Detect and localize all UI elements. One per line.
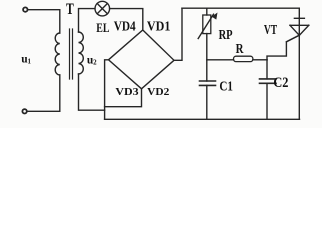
potentiometer RP stem top bbox=[206, 8, 208, 15]
transformer T primary winding bbox=[55, 33, 60, 75]
capacitor C1 stem + plates bbox=[200, 81, 216, 85]
wire bridge left vertex down to bus bbox=[105, 60, 109, 120]
wire top-left to transformer bbox=[28, 10, 60, 33]
bridge rectifier diamond VD1-VD4 bbox=[109, 30, 175, 89]
thyristor VT vertical through symbol bbox=[298, 18, 300, 119]
wire secondary top to lamp bbox=[79, 9, 95, 32]
potentiometer RP arrow bbox=[198, 14, 213, 38]
svg-text:u1: u1 bbox=[21, 54, 31, 66]
wire bottom-left to transformer bbox=[27, 75, 60, 111]
svg-text:VD3: VD3 bbox=[115, 86, 139, 98]
wire R to gate node bbox=[253, 59, 267, 61]
svg-text:u2: u2 bbox=[87, 55, 97, 67]
potentiometer RP arrowhead bbox=[212, 13, 218, 20]
capacitor C2 stem + plates bbox=[266, 60, 268, 79]
svg-text:R: R bbox=[236, 42, 245, 57]
wire secondary bottom bbox=[79, 74, 105, 110]
terminal bottom-left bbox=[22, 109, 26, 113]
svg-text:RP: RP bbox=[219, 28, 233, 43]
svg-text:C1: C1 bbox=[219, 80, 233, 95]
svg-text:C2: C2 bbox=[273, 75, 288, 91]
thyristor VT anode wire bbox=[298, 8, 300, 18]
lamp EL bbox=[95, 1, 110, 16]
potentiometer RP body bbox=[203, 15, 211, 34]
gate wire staircase to VT bbox=[267, 35, 299, 60]
svg-text:EL: EL bbox=[96, 21, 109, 35]
terminal top-left bbox=[23, 7, 27, 11]
wire lamp to bridge top bbox=[110, 9, 143, 30]
transformer core bbox=[70, 29, 73, 79]
svg-text:T: T bbox=[66, 1, 74, 18]
svg-text:VD4: VD4 bbox=[114, 18, 136, 33]
resistor R body bbox=[234, 56, 253, 61]
wire bridge bottom vertex bbox=[105, 89, 142, 107]
thyristor VT cathode tick bbox=[294, 17, 304, 19]
wire bridge right vertex to top rail bbox=[174, 8, 182, 60]
thyristor VT gate line bbox=[286, 35, 299, 42]
svg-text:VD2: VD2 bbox=[147, 86, 170, 98]
potentiometer RP stem bottom + node to C1 bbox=[206, 34, 208, 81]
svg-text:VD1: VD1 bbox=[147, 18, 171, 33]
svg-text:VT: VT bbox=[264, 23, 278, 38]
bottom bus bbox=[105, 118, 300, 120]
top rail bbox=[182, 7, 299, 9]
wire RP node to resistor R bbox=[207, 59, 234, 61]
thyristor VT triangle bbox=[290, 25, 309, 35]
transformer T secondary winding bbox=[79, 32, 84, 74]
thyristor VT bar bbox=[290, 24, 309, 26]
